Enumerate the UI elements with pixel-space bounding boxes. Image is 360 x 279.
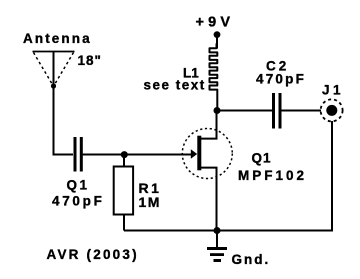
svg-text:1M: 1M bbox=[139, 194, 161, 210]
wire +9V to L1 bbox=[216, 35, 218, 49]
svg-text:MPF102: MPF102 bbox=[238, 168, 307, 183]
svg-text:470pF: 470pF bbox=[256, 72, 306, 87]
svg-text:Q1: Q1 bbox=[67, 178, 90, 193]
svg-text:+9V: +9V bbox=[196, 15, 235, 31]
value label Q1 470pF bbox=[52, 178, 105, 209]
svg-text:470pF: 470pF bbox=[52, 194, 105, 209]
svg-text:Antenna: Antenna bbox=[23, 31, 92, 46]
ground bus wire R1 to J1 bbox=[124, 121, 332, 231]
ground bbox=[207, 231, 227, 263]
junction gate node bbox=[121, 151, 128, 158]
svg-text:18": 18" bbox=[78, 53, 102, 68]
power +9V bbox=[196, 15, 235, 38]
label Q1 MPF102 bbox=[238, 151, 307, 184]
svg-text:Gnd.: Gnd. bbox=[232, 252, 271, 267]
svg-text:J1: J1 bbox=[322, 83, 344, 98]
capacitor C2 470pF bbox=[272, 93, 282, 129]
capacitor Q1 (C1) 470pF bbox=[74, 137, 83, 172]
junction drain node bbox=[214, 107, 221, 114]
label L1 see text bbox=[144, 65, 206, 92]
svg-text:AVR (2003): AVR (2003) bbox=[47, 247, 139, 262]
wire C1 to gate of Q1 bbox=[82, 154, 191, 156]
wire antenna down to C1 level bbox=[54, 52, 74, 155]
svg-text:see text: see text bbox=[144, 77, 206, 92]
connector J1 bbox=[321, 99, 343, 121]
junction ground node bbox=[214, 227, 221, 234]
inductor L1 bbox=[210, 44, 218, 111]
label C2 470pF bbox=[256, 58, 306, 86]
value label R1 1M bbox=[139, 180, 162, 210]
antenna bbox=[33, 52, 75, 89]
resistor R1 bbox=[114, 155, 133, 231]
transistor Q1 MPF102 (JFET) bbox=[182, 111, 232, 231]
wire C2 to J1 bbox=[282, 110, 322, 112]
svg-text:Q1: Q1 bbox=[252, 151, 272, 166]
wire drain junction to C2 bbox=[217, 110, 272, 112]
